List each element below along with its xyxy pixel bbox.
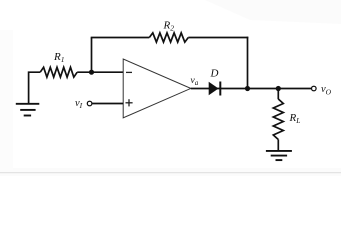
wire: feedback right vertical [247, 37, 249, 89]
resistor RL [273, 99, 283, 140]
ground (load) [266, 151, 292, 160]
wire: load branch top lead [277, 89, 279, 100]
terminal v_O [312, 86, 317, 91]
ground (left, at R1 input) [16, 104, 40, 116]
node: summing junction [89, 70, 94, 75]
terminal v_I [87, 101, 92, 106]
wire: left ground riser and lead to R1 [29, 72, 41, 103]
resistor R2 [149, 33, 188, 42]
node: feedback junction [245, 86, 250, 91]
op-amp U1 [123, 59, 191, 118]
wire: feedback top left segment [91, 37, 150, 39]
minus sign [126, 71, 132, 73]
plus sign [126, 102, 133, 104]
wire: feedback top right segment [188, 37, 248, 39]
wire: op-amp output to v_O [191, 88, 312, 90]
node: load junction [276, 86, 281, 91]
svg-text:D: D [210, 67, 219, 79]
resistor R1 [40, 67, 77, 77]
wire: feedback left vertical [91, 38, 93, 73]
wire: load branch bottom lead [277, 140, 279, 151]
diode D [209, 82, 221, 96]
wire: R1 to op-amp inverting input [77, 71, 123, 73]
wire: v_I to non-inverting input [92, 103, 123, 105]
